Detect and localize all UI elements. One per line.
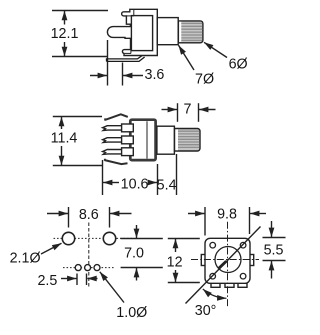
svg-text:12: 12 — [167, 254, 183, 270]
svg-text:8.6: 8.6 — [79, 207, 99, 223]
svg-text:1.0Ø: 1.0Ø — [116, 305, 147, 321]
svg-text:6Ø: 6Ø — [229, 56, 248, 72]
svg-text:5.4: 5.4 — [157, 177, 177, 193]
svg-text:2.1Ø: 2.1Ø — [10, 250, 41, 266]
svg-text:30°: 30° — [195, 303, 217, 319]
svg-text:12.1: 12.1 — [51, 26, 79, 42]
svg-text:10.6: 10.6 — [121, 176, 149, 192]
svg-text:7: 7 — [184, 102, 192, 118]
svg-text:11.4: 11.4 — [51, 130, 78, 146]
svg-text:3.6: 3.6 — [145, 67, 165, 83]
svg-text:7.0: 7.0 — [124, 245, 144, 261]
svg-text:2.5: 2.5 — [37, 273, 57, 289]
svg-text:5.5: 5.5 — [264, 243, 284, 259]
svg-text:9.8: 9.8 — [217, 207, 237, 223]
svg-text:7Ø: 7Ø — [195, 71, 214, 87]
